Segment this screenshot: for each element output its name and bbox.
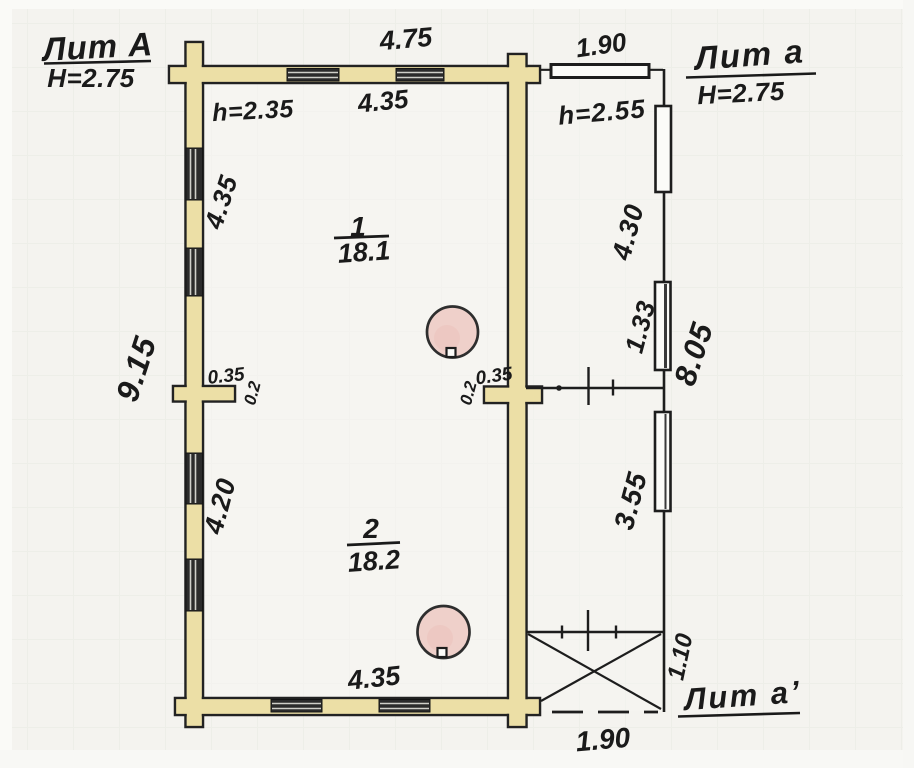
annex right window 2 (1.33) xyxy=(655,282,671,370)
label: Lit a title (annex) xyxy=(692,32,806,77)
wall: middle (between room and annex) xyxy=(508,54,527,727)
label: Lit A underline xyxy=(44,61,151,64)
svg-text:4.35: 4.35 xyxy=(345,660,402,696)
wall: left exterior (Lit A) xyxy=(186,42,204,727)
porch dashed bottom line xyxy=(552,711,658,714)
svg-text:1.90: 1.90 xyxy=(574,722,631,758)
label: room 2 fraction line xyxy=(347,543,400,546)
porch top short tick left xyxy=(561,626,563,639)
wall: top exterior xyxy=(169,66,540,83)
window in left wall (upper 1) xyxy=(186,148,203,200)
svg-text:h=2.35: h=2.35 xyxy=(212,95,295,127)
svg-text:4.35: 4.35 xyxy=(355,83,410,118)
svg-text:18.2: 18.2 xyxy=(347,544,402,578)
svg-text:18.1: 18.1 xyxy=(337,235,392,269)
annex top edge line xyxy=(540,69,663,71)
svg-text:0.35: 0.35 xyxy=(207,364,246,389)
svg-text:Н=2.75: Н=2.75 xyxy=(696,76,785,111)
annex top window bar (1.90) xyxy=(551,65,649,78)
porch X diagonal 2 xyxy=(541,634,661,701)
wall: bottom exterior xyxy=(175,698,540,715)
wall: middle mid junction bar xyxy=(484,387,542,404)
svg-text:2: 2 xyxy=(362,513,379,544)
svg-text:Лит а: Лит а xyxy=(692,32,806,77)
window in bottom wall (left) xyxy=(271,700,322,713)
window in left wall (lower 1) xyxy=(186,453,203,504)
porch top long tick xyxy=(587,610,589,651)
divider short tick xyxy=(612,380,614,396)
window in bottom wall (right) xyxy=(379,700,430,713)
stove in room 2 xyxy=(418,606,470,658)
svg-text:4.75: 4.75 xyxy=(377,22,434,57)
annex right window 1 (h=2.55) xyxy=(656,106,672,192)
label: Lit a' (porch) xyxy=(681,674,802,717)
porch top line xyxy=(526,631,663,633)
annex right wall line xyxy=(663,69,666,712)
porch top short tick right xyxy=(615,626,617,639)
porch X diagonal 1 xyxy=(528,634,661,709)
label: Lit a' underline xyxy=(678,713,800,717)
wall junction fills (erase internal outlines) xyxy=(170,43,540,725)
divider dot xyxy=(556,385,562,391)
stove in room 1 xyxy=(427,307,478,358)
annex right window 3 (3.55) xyxy=(655,412,671,511)
divider long tick xyxy=(587,367,589,405)
window in top wall (left of 4.35) xyxy=(287,69,339,82)
wall: left mid junction bar xyxy=(173,386,235,402)
label: Lit A title xyxy=(40,25,154,68)
window in top wall (right) xyxy=(396,69,444,82)
label: room 1 fraction line xyxy=(334,236,389,238)
annex divider line xyxy=(526,387,664,389)
label: Lit a underline xyxy=(686,74,816,78)
window in left wall (lower 2) xyxy=(186,559,203,611)
svg-text:Н=2.75: Н=2.75 xyxy=(47,63,135,93)
window in left wall (upper 2) xyxy=(186,248,203,296)
